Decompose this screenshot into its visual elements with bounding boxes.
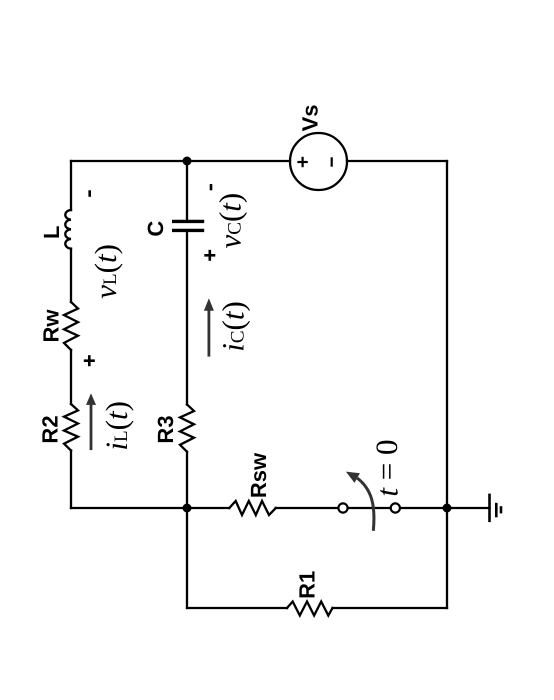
svg-text:R1: R1 [295, 571, 320, 599]
svg-text:R3: R3 [153, 415, 178, 443]
svg-text:iL(t): iL(t) [99, 401, 134, 451]
svg-text:Rw: Rw [39, 309, 64, 343]
svg-text:vC(t): vC(t) [212, 193, 247, 249]
svg-text:Vs: Vs [297, 104, 322, 131]
svg-text:iC(t): iC(t) [215, 301, 250, 352]
svg-text:Rsw: Rsw [246, 452, 271, 498]
svg-text:t = 0: t = 0 [369, 439, 404, 496]
svg-text:C: C [143, 221, 168, 237]
svg-text:R2: R2 [38, 415, 63, 443]
svg-text:vL(t): vL(t) [87, 244, 122, 299]
svg-text:L: L [39, 226, 64, 239]
